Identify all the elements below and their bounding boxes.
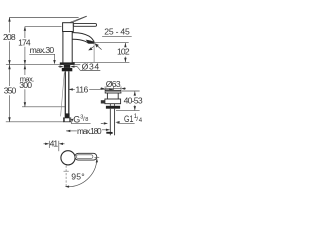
- drain locking ring: [105, 99, 121, 104]
- svg-text:300: 300: [19, 80, 32, 90]
- svg-text:102: 102: [117, 47, 130, 57]
- pop-up rod: [61, 73, 65, 117]
- lever tip extension line: [94, 157, 99, 159]
- drain lock nut: [106, 106, 120, 109]
- dim 116 horizontal: [69, 88, 75, 90]
- hose connector nut G3/8: [63, 118, 70, 122]
- Ø63 extension ticks: [104, 86, 106, 90]
- svg-text:116: 116: [76, 84, 89, 94]
- label G3/8 with arrow: [70, 119, 74, 121]
- dim 350 bottom extension line: [6, 121, 64, 123]
- faucet body: [62, 32, 64, 63]
- dim line 350 vertical: [9, 65, 11, 86]
- dim Ø63 line and arrows: [105, 88, 121, 90]
- drain flange: [105, 90, 121, 93]
- drain centerline tick: [112, 86, 114, 93]
- drain tailpipe: [109, 109, 111, 136]
- supply hose: [64, 71, 66, 113]
- lever rod closed position: [73, 24, 96, 27]
- spray angle arrow upper: [95, 44, 101, 50]
- svg-text:max.180: max.180: [77, 126, 102, 136]
- svg-text:25 - 45: 25 - 45: [104, 26, 130, 36]
- dim line 208 vertical: [9, 17, 11, 32]
- dim Ø34 arrows at shank: [58, 66, 60, 68]
- dim line max.300 vertical: [24, 65, 26, 75]
- spout outlet extension line: [94, 42, 129, 44]
- top view lever: [75, 153, 97, 160]
- dashed centerline below circle: [65, 166, 67, 187]
- swivel arc 95deg: [66, 159, 97, 187]
- spout outlet tip: [86, 40, 94, 43]
- svg-text:max.30: max.30: [30, 45, 55, 55]
- svg-text:G: G: [73, 115, 80, 125]
- spray angle vertical line: [93, 41, 95, 63]
- dim 41: [44, 143, 46, 145]
- pop-up lever knob: [101, 100, 105, 103]
- deck line: [6, 64, 60, 66]
- drain neck: [106, 93, 108, 99]
- spray angle arrow lower: [89, 46, 94, 49]
- label G1 1/4 with arrows at pipe: [101, 122, 104, 124]
- pipe break mark: [106, 132, 112, 134]
- centerline tick: [64, 170, 69, 172]
- faucet head: [63, 23, 74, 32]
- lever raised position thin outline: [69, 16, 87, 23]
- lower reference line: [72, 61, 129, 63]
- mounting nut: [62, 68, 73, 71]
- svg-text:350: 350: [4, 85, 17, 95]
- svg-text:Ø34: Ø34: [82, 61, 100, 71]
- escutcheon base: [60, 62, 75, 65]
- svg-text:8: 8: [85, 117, 88, 123]
- dim 40-53 vertical: [134, 91, 136, 95]
- dim 102 vertical: [124, 43, 126, 47]
- svg-text:208: 208: [3, 32, 16, 42]
- dim line 174 vertical: [24, 27, 26, 39]
- top view body circle: [61, 151, 75, 165]
- dim 40-53 extension lines: [122, 90, 140, 92]
- svg-text:41: 41: [50, 139, 59, 149]
- dim max.180: [66, 130, 77, 132]
- hose crimp sleeve: [65, 113, 70, 118]
- shank below deck: [64, 65, 70, 68]
- dim 208 extension line top: [10, 17, 79, 19]
- dim max.300 bottom extension line: [22, 106, 65, 108]
- svg-text:40-53: 40-53: [124, 96, 143, 106]
- drain pipe upper: [109, 104, 111, 106]
- svg-text:95°: 95°: [71, 172, 84, 182]
- dim 174 extension line top: [25, 26, 62, 28]
- spout: [72, 33, 94, 44]
- svg-text:G1: G1: [124, 114, 133, 124]
